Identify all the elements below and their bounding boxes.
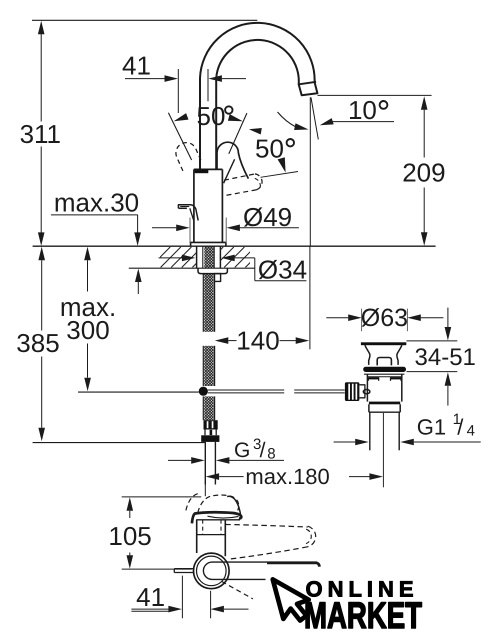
svg-text:Ø49: Ø49 [243,202,292,232]
svg-text:140: 140 [236,325,279,355]
svg-text:50: 50 [197,101,226,131]
svg-text:209: 209 [402,158,445,188]
svg-text:4: 4 [467,423,475,440]
svg-text:34-51: 34-51 [415,344,476,371]
svg-text:41: 41 [122,50,151,80]
svg-text:MARKET: MARKET [304,595,422,636]
svg-text:G1: G1 [417,415,446,440]
svg-text:/: / [457,415,464,440]
svg-text:Ø63: Ø63 [361,304,408,332]
svg-text:10: 10 [348,95,377,125]
svg-text:max.30: max.30 [54,188,139,218]
svg-text:311: 311 [20,119,61,149]
svg-text:105: 105 [108,521,151,551]
svg-text:max.180: max.180 [245,464,329,489]
svg-text:385: 385 [16,328,59,358]
svg-text:300: 300 [66,315,109,345]
svg-text:G: G [234,439,250,462]
svg-text:41: 41 [136,582,165,612]
svg-text:8: 8 [267,446,275,463]
svg-text:Ø34: Ø34 [258,254,307,284]
svg-text:/: / [260,439,266,462]
